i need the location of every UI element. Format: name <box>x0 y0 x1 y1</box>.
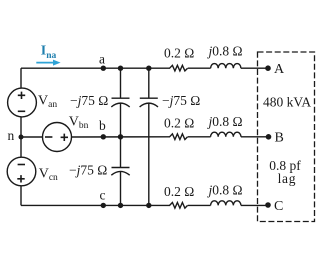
voltage source V_an <box>8 88 37 117</box>
voltage source V_cn <box>7 157 36 186</box>
svg-text:480 kVA: 480 kVA <box>263 95 311 110</box>
node c junction dot <box>101 203 106 208</box>
wire n to V_bn <box>21 136 43 138</box>
V_an minus sign <box>18 110 25 112</box>
junction dot col2 row c <box>146 203 151 208</box>
resistor row B 0.2 ohm <box>170 134 188 140</box>
node a junction dot <box>101 66 106 71</box>
wire bottom rail c <box>21 204 170 206</box>
inductor row B j0.8 ohm <box>211 132 241 137</box>
wire inductor to terminal C <box>241 204 268 206</box>
wire V_cn to bottom rail <box>20 186 22 206</box>
wire inductor to terminal B <box>241 136 268 138</box>
capacitor C3 b-c : top wire <box>120 137 122 168</box>
wire inductor to terminal A <box>241 67 268 69</box>
svg-text:Van: Van <box>38 94 57 111</box>
V_an plus sign <box>18 92 25 99</box>
wire resistor to inductor row C <box>188 204 211 206</box>
wire left rail top <box>20 68 22 88</box>
voltage source V_bn <box>43 123 72 152</box>
terminal C dot <box>265 202 271 208</box>
svg-text:−j75 Ω: −j75 Ω <box>162 93 200 108</box>
terminal B dot <box>266 134 272 140</box>
V_bn plus sign <box>61 134 68 141</box>
capacitor C2 a-c : top wire <box>148 68 150 98</box>
svg-text:C: C <box>274 199 283 214</box>
capacitor C2 curved plate <box>140 103 158 107</box>
svg-text:Vcn: Vcn <box>39 167 58 184</box>
svg-text:0.2 Ω: 0.2 Ω <box>164 184 194 199</box>
resistor row A 0.2 ohm <box>170 65 188 71</box>
node n dot <box>19 135 24 140</box>
svg-text:Ina: Ina <box>41 44 57 61</box>
svg-text:A: A <box>274 62 285 77</box>
svg-text:j0.8 Ω: j0.8 Ω <box>207 183 243 198</box>
svg-text:B: B <box>275 131 284 146</box>
current arrow I_na <box>36 60 60 66</box>
node b junction dot <box>101 134 106 139</box>
svg-text:−j75 Ω: −j75 Ω <box>70 93 108 108</box>
V_cn minus sign <box>18 164 25 166</box>
svg-text:j0.8 Ω: j0.8 Ω <box>207 44 243 59</box>
capacitor C3 curved plate <box>111 171 129 175</box>
svg-text:c: c <box>100 187 106 202</box>
svg-text:a: a <box>99 51 105 66</box>
junction dot col1 row b <box>118 134 123 139</box>
capacitor C2 bottom wire crossing row b <box>148 103 150 205</box>
svg-text:Vbn: Vbn <box>69 114 89 131</box>
inductor row A j0.8 ohm <box>211 64 241 69</box>
capacitor C3 bottom wire <box>120 172 122 206</box>
dashed load box <box>258 52 315 222</box>
wire top rail a <box>21 67 170 69</box>
wire V_an to n <box>20 117 22 137</box>
svg-text:b: b <box>99 118 106 133</box>
wire V_bn to node b <box>72 136 171 138</box>
junction dot col1 row a <box>118 66 123 71</box>
capacitor C1 bottom wire <box>120 103 122 136</box>
wire n to V_cn <box>20 137 22 157</box>
svg-text:lag: lag <box>278 171 297 186</box>
capacitor C1 curved plate <box>111 103 129 107</box>
capacitor C2 top plate <box>140 97 158 99</box>
junction dot col2 row a <box>146 66 151 71</box>
svg-text:j0.8 Ω: j0.8 Ω <box>207 114 243 129</box>
terminal A dot <box>265 65 271 71</box>
resistor row C 0.2 ohm <box>170 203 188 209</box>
V_cn plus sign <box>17 175 24 182</box>
capacitor C1 a-b : top wire <box>120 68 122 98</box>
junction dot col1 row c <box>118 203 123 208</box>
svg-text:−j75 Ω: −j75 Ω <box>69 163 107 178</box>
wire resistor to inductor row B <box>188 136 211 138</box>
capacitor C1 top plate <box>112 97 130 99</box>
V_bn minus sign <box>45 136 52 138</box>
svg-text:n: n <box>8 128 15 143</box>
inductor row C j0.8 ohm <box>211 201 241 206</box>
capacitor C3 top plate <box>112 167 130 169</box>
svg-text:0.2 Ω: 0.2 Ω <box>164 115 194 130</box>
svg-text:0.2 Ω: 0.2 Ω <box>164 46 194 61</box>
wire resistor to inductor row A <box>188 67 211 69</box>
